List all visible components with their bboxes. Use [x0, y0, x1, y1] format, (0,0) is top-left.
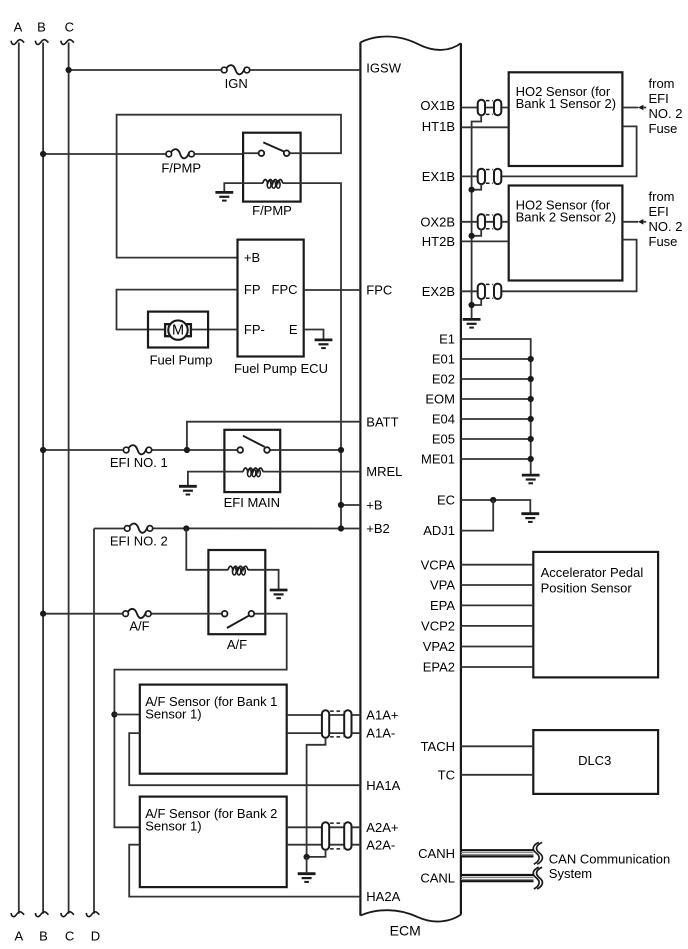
- relay F/PMP coil wire stubs: [243, 182, 301, 184]
- label HO2 bank 2 line 1: [516, 197, 611, 212]
- wire fuel pump to FP-: [191, 329, 238, 331]
- svg-text:A2A-: A2A-: [366, 837, 395, 852]
- relay A/F coil wire stubs: [208, 569, 265, 571]
- wire HA2A path: [129, 845, 360, 897]
- relay A/F box: [208, 550, 265, 634]
- svg-text:+B: +B: [366, 498, 382, 513]
- svg-text:OX1B: OX1B: [420, 98, 455, 113]
- shield tail EX2B: [472, 299, 482, 305]
- ground A/F sensor shield: [298, 874, 316, 882]
- junction A/F relay feed at +B2 line: [183, 525, 189, 531]
- ECM top wavy edge: [360, 37, 461, 50]
- svg-text:F/PMP: F/PMP: [161, 161, 201, 176]
- shield tail EX1B: [472, 184, 482, 190]
- pin label HA2A: [366, 889, 400, 904]
- junction BATT at EFI NO. 1 line: [184, 447, 190, 453]
- ECM left edge: [359, 42, 361, 915]
- wire E01 to ground bus: [461, 358, 531, 360]
- svg-text:A2A+: A2A+: [366, 820, 398, 835]
- junction EOM ground bus: [528, 396, 534, 402]
- pin label FPC: [366, 283, 392, 298]
- fuse EFI NO. 2: [124, 524, 152, 533]
- wire feed to A/F sensor bank 1: [114, 714, 139, 716]
- wire E02 to ground bus: [461, 378, 531, 380]
- break symbol top of A: [11, 40, 24, 45]
- svg-text:EFI: EFI: [649, 204, 669, 219]
- junction E04 ground bus: [528, 416, 534, 422]
- label A/F fuse: [129, 618, 149, 633]
- svg-text:CAN Communication: CAN Communication: [549, 851, 670, 866]
- pin label IGSW: [366, 60, 401, 75]
- wire A1A- from sensor to ECM: [287, 732, 361, 734]
- pin label E01: [432, 352, 455, 367]
- svg-text:EC: EC: [437, 493, 455, 508]
- relay F/PMP switch contacts: [259, 150, 290, 156]
- svg-text:EFI NO. 2: EFI NO. 2: [110, 534, 168, 549]
- wire VPA2 to accelerator sensor: [461, 646, 533, 648]
- svg-text:FPC: FPC: [272, 282, 298, 297]
- CAN bus CANH: [461, 842, 543, 864]
- wire HT1B to sensor: [461, 126, 509, 128]
- A/F Sensor bank 2 box: [140, 797, 287, 888]
- svg-text:VPA2: VPA2: [423, 639, 455, 654]
- junction shield EX2B: [469, 302, 475, 308]
- connector pair A1A: [322, 710, 352, 737]
- relay F/PMP coil: [263, 180, 283, 189]
- svg-text:IGN: IGN: [225, 76, 248, 91]
- wire EX1B to ECM: [461, 175, 478, 177]
- pin label CANH: [418, 846, 455, 861]
- label B (top): [37, 20, 46, 35]
- label IGN fuse: [225, 76, 248, 91]
- wire IGN from bus C to ECM IGSW: [69, 69, 361, 71]
- svg-text:CANH: CANH: [418, 846, 455, 861]
- wire TC to DLC3: [461, 774, 533, 776]
- svg-text:IGSW: IGSW: [366, 60, 401, 75]
- label F/PMP fuse: [161, 161, 201, 176]
- wire FP to fuel pump: [117, 290, 238, 330]
- svg-text:B: B: [37, 20, 46, 35]
- pin label A1A+: [366, 708, 398, 723]
- wire F/PMP coil to +B net vertical: [301, 183, 341, 528]
- wire EX1B loop to HO2 bank 1: [501, 126, 636, 176]
- svg-text:MREL: MREL: [366, 464, 402, 479]
- pin label HA1A: [366, 778, 400, 793]
- pin label EPA2: [423, 660, 455, 675]
- svg-text:Fuel Pump ECU: Fuel Pump ECU: [234, 361, 328, 376]
- svg-text:Fuse: Fuse: [649, 234, 678, 249]
- svg-text:E: E: [289, 322, 298, 337]
- svg-text:System: System: [549, 866, 592, 881]
- wire OX2B to sensor: [461, 221, 509, 223]
- wire A2A+ from sensor to ECM: [287, 826, 361, 828]
- ground EFI MAIN coil: [179, 486, 197, 494]
- label accelerator line 2: [541, 580, 633, 595]
- wire A/F relay output to A/F sensors: [114, 614, 286, 828]
- label A/F Sensor bank 1 line 1: [145, 694, 277, 709]
- svg-text:Sensor 1): Sensor 1): [145, 818, 201, 833]
- svg-text:HT1B: HT1B: [422, 119, 455, 134]
- wire VCP2 to accelerator sensor: [461, 625, 533, 627]
- label D (bottom): [91, 929, 100, 944]
- ground Fuel Pump ECU E: [315, 340, 333, 348]
- wire EFI MAIN switch to +B net: [280, 449, 341, 451]
- svg-text:A: A: [14, 929, 23, 944]
- svg-text:HA1A: HA1A: [366, 778, 400, 793]
- svg-text:FP: FP: [244, 282, 261, 297]
- wire VCPA to accelerator sensor: [461, 564, 533, 566]
- svg-text:A/F: A/F: [227, 637, 247, 652]
- shield drain vertical to ground: [306, 857, 308, 874]
- pin label ME01: [421, 452, 455, 467]
- svg-text:+B: +B: [244, 250, 260, 265]
- junction shield drain A2A: [304, 854, 310, 860]
- wire EX2B to ECM: [461, 290, 478, 292]
- wire E to ground: [304, 330, 324, 340]
- connector pair OX2B: [478, 214, 502, 229]
- label from EFI NO. 2 Fuse (bank 1): [649, 76, 683, 136]
- svg-text:Fuel Pump: Fuel Pump: [150, 352, 213, 367]
- svg-text:ME01: ME01: [421, 452, 455, 467]
- svg-text:E05: E05: [432, 432, 455, 447]
- wire EFI MAIN coil to ground: [188, 472, 225, 487]
- label Fuel Pump ECU: [234, 361, 328, 376]
- wire +B pin: [341, 504, 360, 506]
- label from EFI NO. 2 Fuse (bank 2): [649, 189, 683, 249]
- wire E05 to ground bus: [461, 438, 531, 440]
- label EFI NO. 2 fuse: [110, 534, 168, 549]
- junction +B net at +B2 pin: [338, 525, 344, 531]
- label DLC3: [578, 753, 611, 768]
- break symbol bottom of A: [11, 912, 24, 917]
- pin label OX1B: [420, 98, 455, 113]
- wire EFI MAIN coil to MREL: [280, 471, 360, 473]
- wire +B2 to A/F relay coil: [186, 529, 208, 570]
- svg-text:E01: E01: [432, 352, 455, 367]
- svg-text:CANL: CANL: [420, 870, 455, 885]
- svg-text:A1A+: A1A+: [366, 708, 398, 723]
- ground EC: [521, 514, 539, 522]
- relay A/F switch contacts: [222, 611, 254, 617]
- svg-text:Fuse: Fuse: [649, 121, 678, 136]
- wire HT2B to sensor: [461, 240, 509, 242]
- label C (bottom): [65, 929, 74, 944]
- junction shield OX2B: [469, 233, 475, 239]
- svg-text:BATT: BATT: [366, 414, 398, 429]
- label CAN System: [549, 866, 592, 881]
- relay EFI MAIN switch wire stubs: [224, 449, 280, 451]
- wire EPA to accelerator sensor: [461, 604, 533, 606]
- wire from EFI NO.2 fuse to HO2 bank 1: [622, 105, 646, 111]
- connector pair A2A: [322, 822, 352, 849]
- svg-text:NO. 2: NO. 2: [649, 106, 683, 121]
- HO2 sensor bank 2 box: [509, 186, 623, 281]
- pin label E05: [432, 432, 455, 447]
- pin label EPA: [430, 598, 455, 613]
- DLC3 box: [533, 730, 658, 794]
- Accelerator Pedal Position Sensor box: [533, 552, 658, 678]
- wire F/PMP coil to ground: [224, 183, 243, 192]
- svg-text:A1A-: A1A-: [366, 726, 395, 741]
- pin label VPA: [430, 578, 455, 593]
- ECM bottom wavy edge: [360, 910, 461, 921]
- pin label EOM: [425, 392, 455, 407]
- wire HA1A path: [129, 733, 360, 785]
- pin label VCP2: [421, 618, 455, 633]
- svg-text:VPA: VPA: [430, 578, 455, 593]
- svg-text:DLC3: DLC3: [578, 753, 611, 768]
- svg-text:ADJ1: ADJ1: [423, 523, 455, 538]
- relay EFI MAIN box: [224, 430, 280, 492]
- svg-text:C: C: [65, 929, 74, 944]
- svg-text:FP-: FP-: [244, 322, 265, 337]
- svg-text:E04: E04: [432, 412, 455, 427]
- bus line D (EFI NO. 2 feed continuation): [93, 529, 95, 914]
- pin label CANL: [420, 870, 455, 885]
- wire E1 to ground bus: [461, 339, 531, 475]
- svg-text:Bank 2 Sensor 2): Bank 2 Sensor 2): [516, 209, 616, 224]
- junction EC-ADJ1: [490, 497, 496, 503]
- label HO2 bank 2 line 2: [516, 209, 616, 224]
- pin label A2A-: [366, 837, 395, 852]
- pin label E02: [432, 372, 455, 387]
- svg-text:B: B: [39, 929, 48, 944]
- svg-text:M: M: [172, 323, 184, 339]
- label HO2 bank 1 line 1: [516, 84, 611, 99]
- junction on bus B at F/PMP: [40, 151, 46, 157]
- motor right brush bracket: [186, 324, 191, 336]
- ground HO2 shield drain: [463, 319, 481, 327]
- svg-text:+B2: +B2: [366, 521, 390, 536]
- pin label +B: [366, 498, 382, 513]
- svg-text:ECM: ECM: [390, 923, 421, 939]
- svg-text:EPA: EPA: [430, 598, 455, 613]
- bus line A: [18, 43, 20, 914]
- shield tail OX1B: [472, 115, 482, 319]
- junction A/F sensor bank 1 feed: [111, 711, 117, 717]
- relay A/F coil: [228, 566, 248, 575]
- shield tail OX2B: [472, 229, 482, 236]
- label A/F Sensor bank 1 line 2: [145, 706, 201, 721]
- pin label BATT: [366, 414, 398, 429]
- wire TACH to DLC3: [461, 745, 533, 747]
- junction on bus B at A/F: [40, 611, 46, 617]
- junction on bus B at EFI NO. 1: [40, 447, 46, 453]
- label A (top): [14, 20, 23, 35]
- fuse EFI NO. 1: [123, 445, 151, 454]
- pin label HT1B: [422, 119, 455, 134]
- fuse IGN: [221, 65, 249, 74]
- junction E05 ground bus: [528, 436, 534, 442]
- svg-text:A: A: [14, 20, 23, 35]
- break symbol bottom of D: [86, 912, 99, 917]
- svg-text:from: from: [649, 189, 675, 204]
- pin label A1A-: [366, 726, 395, 741]
- relay EFI MAIN switch blade: [243, 436, 265, 447]
- pin label +B2: [366, 521, 390, 536]
- fuse A/F: [123, 609, 151, 618]
- svg-text:TC: TC: [438, 767, 455, 782]
- bus line B: [42, 43, 44, 914]
- junction shield EX1B: [469, 187, 475, 193]
- svg-text:EX2B: EX2B: [422, 284, 455, 299]
- label accelerator line 1: [541, 565, 644, 580]
- junction +B net at relay output: [338, 447, 344, 453]
- Fuel Pump ECU box: [238, 240, 304, 357]
- pin label EX2B: [422, 284, 455, 299]
- label CAN Communication: [549, 851, 670, 866]
- label HO2 bank 1 line 2: [516, 96, 616, 111]
- junction E01 ground bus: [528, 356, 534, 362]
- pin label HT2B: [422, 234, 455, 249]
- svg-text:Position Sensor: Position Sensor: [541, 580, 633, 595]
- fuse F/PMP: [166, 149, 194, 158]
- svg-text:E1: E1: [439, 332, 455, 347]
- svg-text:Accelerator Pedal: Accelerator Pedal: [541, 565, 644, 580]
- label ECM: [390, 923, 421, 939]
- relay A/F switch wire stubs: [208, 613, 265, 615]
- svg-text:D: D: [91, 929, 100, 944]
- svg-text:TACH: TACH: [421, 739, 455, 754]
- svg-text:A/F: A/F: [129, 618, 149, 633]
- wire OX1B to sensor: [461, 107, 509, 109]
- pin label VPA2: [423, 639, 455, 654]
- motor left brush bracket: [165, 324, 170, 336]
- wire BATT from ECM to relay line: [187, 422, 361, 450]
- wire EOM to ground bus: [461, 398, 531, 400]
- svg-text:OX2B: OX2B: [420, 214, 455, 229]
- wire F/PMP fuse line from bus B to F/PMP relay: [43, 153, 243, 155]
- pin label FP (Fuel Pump ECU): [244, 282, 261, 297]
- svg-text:EPA2: EPA2: [423, 660, 455, 675]
- CAN bus CANL: [461, 867, 543, 889]
- junction +B net at +B pin: [338, 502, 344, 508]
- ECM right edge: [460, 43, 462, 914]
- pin label EX1B: [422, 169, 455, 184]
- pin label ADJ1: [423, 523, 455, 538]
- pin label TC: [438, 767, 455, 782]
- wire from EFI NO.2 fuse to HO2 bank 2: [622, 219, 646, 225]
- wire VPA to accelerator sensor: [461, 584, 533, 586]
- svg-text:HA2A: HA2A: [366, 889, 400, 904]
- svg-text:Sensor 1): Sensor 1): [145, 706, 201, 721]
- svg-text:EFI MAIN: EFI MAIN: [224, 495, 280, 510]
- svg-text:HT2B: HT2B: [422, 234, 455, 249]
- wire A/F fuse line from bus B to A/F relay: [43, 613, 208, 615]
- wire E04 to ground bus: [461, 418, 531, 420]
- svg-text:F/PMP: F/PMP: [252, 203, 292, 218]
- wire +B2 line from D to ECM: [94, 527, 360, 529]
- pin label EC: [437, 493, 455, 508]
- svg-text:E02: E02: [432, 372, 455, 387]
- relay EFI MAIN coil wire stubs: [224, 471, 280, 473]
- connector pair EX2B: [478, 284, 502, 299]
- label Fuel Pump: [150, 352, 213, 367]
- pin label +B (Fuel Pump ECU): [244, 250, 260, 265]
- pin label FP- (Fuel Pump ECU): [244, 322, 265, 337]
- pin label MREL: [366, 464, 402, 479]
- pin label TACH: [421, 739, 455, 754]
- pin label E1: [439, 332, 455, 347]
- pin label E04: [432, 412, 455, 427]
- wire ADJ1 to EC: [461, 500, 493, 531]
- junction E02 ground bus: [528, 376, 534, 382]
- relay EFI MAIN switch contacts: [237, 447, 269, 453]
- connector pair EX1B: [478, 169, 502, 184]
- svg-text:Bank 1 Sensor 2): Bank 1 Sensor 2): [516, 96, 616, 111]
- break symbol top of B: [35, 40, 48, 45]
- wire FPC to ECM: [304, 289, 361, 291]
- junction on bus C at IGN: [66, 67, 72, 73]
- HO2 sensor bank 1 box: [509, 72, 623, 166]
- label EFI MAIN relay: [224, 495, 280, 510]
- bus line C: [68, 43, 70, 914]
- shield tail A2A: [307, 850, 326, 857]
- svg-text:VCP2: VCP2: [421, 618, 455, 633]
- ground A/F relay coil: [270, 590, 288, 598]
- shield tail A1A: [307, 738, 326, 857]
- junction ME01 ground bus: [528, 456, 534, 462]
- pin label A2A+: [366, 820, 398, 835]
- label A/F Sensor bank 2 line 1: [145, 806, 277, 821]
- relay F/PMP switch wire stubs: [243, 152, 301, 154]
- break symbol bottom of B: [35, 912, 48, 917]
- label B (bottom): [39, 929, 48, 944]
- wire EFI NO. 1 line from bus B to EFI MAIN relay: [43, 449, 224, 451]
- ground F/PMP relay coil: [215, 192, 233, 200]
- motor M circle: [168, 320, 187, 339]
- relay A/F switch blade: [227, 616, 249, 628]
- relay F/PMP switch blade: [263, 142, 284, 151]
- connector pair OX1B: [478, 100, 502, 115]
- svg-text:NO. 2: NO. 2: [649, 219, 683, 234]
- wire A/F coil to ground: [265, 570, 278, 590]
- svg-text:EFI NO. 1: EFI NO. 1: [110, 455, 168, 470]
- wire EPA2 to accelerator sensor: [461, 666, 533, 668]
- label F/PMP relay: [252, 203, 292, 218]
- motor M letter: [172, 323, 184, 339]
- A/F Sensor bank 1 box: [140, 685, 287, 774]
- svg-text:from: from: [649, 76, 675, 91]
- pin label FPC (Fuel Pump ECU): [272, 282, 298, 297]
- svg-text:VCPA: VCPA: [421, 557, 456, 572]
- label A/F Sensor bank 2 line 2: [145, 818, 201, 833]
- pin label VCPA: [421, 557, 456, 572]
- label A/F relay: [227, 637, 247, 652]
- wire A2A- from sensor to ECM: [287, 844, 361, 846]
- svg-text:FPC: FPC: [366, 283, 392, 298]
- break symbol top of C: [61, 40, 74, 45]
- wire EC to ground: [461, 500, 530, 514]
- wire A1A+ from sensor to ECM: [287, 714, 361, 716]
- svg-text:C: C: [65, 20, 74, 35]
- relay F/PMP box: [243, 133, 301, 202]
- pin label E (Fuel Pump ECU): [289, 322, 298, 337]
- wire ME01 to ground bus: [461, 458, 531, 460]
- break symbol bottom of C: [61, 912, 74, 917]
- svg-text:EFI: EFI: [649, 91, 669, 106]
- wire F/PMP switch output loop to Fuel Pump ECU +B: [117, 115, 341, 258]
- wire EX2B loop to HO2 bank 2: [501, 240, 636, 292]
- label A (bottom): [14, 929, 23, 944]
- relay EFI MAIN coil: [243, 468, 263, 477]
- svg-text:EOM: EOM: [425, 392, 455, 407]
- Fuel Pump box: [148, 312, 208, 348]
- svg-text:EX1B: EX1B: [422, 169, 455, 184]
- ground E bus: [522, 475, 540, 483]
- pin label OX2B: [420, 214, 455, 229]
- label EFI NO. 1 fuse: [110, 455, 168, 470]
